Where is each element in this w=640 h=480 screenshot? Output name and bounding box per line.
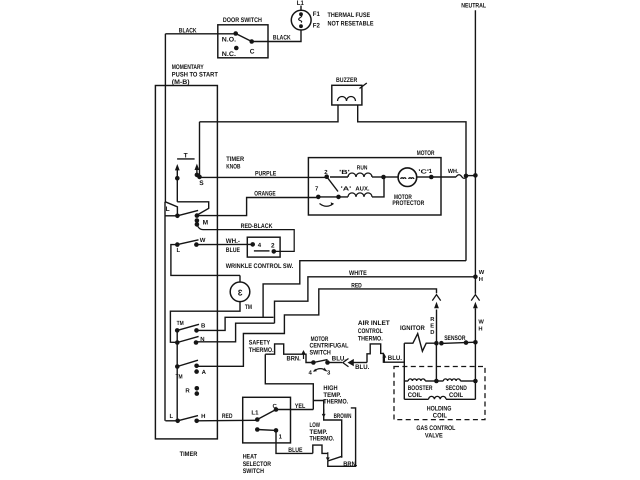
svg-text:MOMENTARY: MOMENTARY (172, 64, 204, 71)
svg-text:AIR INLET: AIR INLET (358, 320, 390, 327)
sensor with dots (441, 335, 477, 345)
low temp thermo contact blade BRN. (326, 408, 358, 468)
svg-text:BRN.: BRN. (343, 461, 357, 468)
svg-text:SWITCH: SWITCH (243, 468, 264, 475)
svg-text:N.O.: N.O. (222, 37, 236, 44)
svg-text:L1: L1 (297, 0, 304, 7)
svg-text:R: R (185, 388, 190, 395)
label: THERMAL FUSE NOT RESETABLE (328, 12, 375, 28)
timer box (155, 86, 217, 458)
svg-text:3: 3 (238, 287, 243, 297)
plug on red wire to ignitor (430, 295, 440, 344)
svg-text:SENSOR: SENSOR (444, 335, 465, 342)
svg-text:RED-BLACK: RED-BLACK (241, 223, 273, 230)
timer T-bar symbol (177, 152, 195, 159)
wire: RED from timer H to heat selector L1 (197, 413, 258, 421)
wire: BLACK from door switch N.O. to momentary push line (165, 28, 235, 35)
svg-text:WH.: WH. (448, 168, 459, 175)
wire: TM top lead (239, 275, 241, 282)
svg-text:COIL: COIL (433, 412, 447, 419)
wire: PURPLE from S to motor pin 2 (201, 170, 327, 177)
svg-text:W: W (200, 237, 206, 244)
svg-text:COIL: COIL (449, 392, 463, 399)
timer rail: main L rail (164, 202, 166, 421)
timer cam L (upper) (165, 202, 177, 216)
label: MOTOR CENTRIFUGAL SWITCH (310, 336, 349, 357)
ignitor heating element zigzag (404, 334, 436, 352)
booster coil (404, 379, 436, 399)
gas control valve dashed box (394, 367, 485, 440)
buzzer BZ (332, 77, 367, 105)
wire: buzzer stair down to bus (263, 261, 466, 318)
motor centrifugal switch contacts 4-3 (309, 360, 332, 377)
svg-text:WH.-: WH.- (226, 238, 240, 245)
label: SAFETY THERMO. (249, 339, 274, 354)
plug tick BLU (383, 354, 403, 363)
wire: valve left vertical (403, 343, 405, 399)
wire: WH.-BLUE from W to wrinkle control 4 (196, 238, 252, 254)
svg-text:W: W (478, 319, 484, 325)
label: IGNITOR (400, 325, 425, 332)
motor pin C out (417, 168, 434, 179)
svg-text:DOOR SWITCH: DOOR SWITCH (223, 17, 262, 24)
svg-text:BRN.: BRN. (287, 355, 301, 362)
svg-text:VALVE: VALVE (425, 432, 443, 439)
svg-text:IGNITOR: IGNITOR (400, 325, 425, 332)
svg-text:BROWN: BROWN (334, 413, 352, 420)
wire: thermal fuse bottom lead, BLACK, to door switch C (252, 30, 301, 42)
timer contact S with arrow (195, 164, 205, 187)
svg-text:PURPLE: PURPLE (255, 170, 277, 177)
svg-text:L1: L1 (251, 409, 259, 416)
wire: WHITE from neutral junction stair down (275, 270, 476, 323)
timer contact W row with blade (lower L) (175, 237, 206, 254)
svg-text:KNOB: KNOB (226, 164, 240, 171)
plug tick BROWN (322, 409, 352, 421)
svg-text:BLACK: BLACK (179, 28, 197, 35)
label: TIMER KNOB (226, 156, 244, 171)
junction dots motor out (464, 173, 478, 178)
svg-text:H: H (478, 327, 482, 333)
plug arrows BLU. on centrifugal wire (328, 356, 370, 371)
svg-text:C: C (250, 48, 255, 55)
svg-text:BLUE: BLUE (288, 447, 303, 454)
svg-text:W: W (479, 270, 485, 276)
svg-text:ORANGE: ORANGE (254, 190, 276, 197)
second coil (436, 379, 475, 399)
svg-text:COIL: COIL (408, 392, 422, 399)
svg-text:WRINKLE CONTROL SW.: WRINKLE CONTROL SW. (226, 263, 294, 270)
label W-H upper and plug on neutral (471, 270, 485, 343)
svg-text:A: A (202, 369, 207, 376)
svg-text:H: H (479, 277, 483, 283)
svg-text:L: L (177, 247, 181, 254)
svg-text:L: L (170, 413, 174, 420)
timer contact TM-A with blade (175, 360, 207, 381)
svg-text:TM: TM (177, 320, 184, 327)
junction dots coils (434, 379, 478, 384)
motor box (308, 150, 441, 215)
wrinkle control switch box (226, 237, 294, 270)
svg-text:SAFETY: SAFETY (249, 339, 271, 346)
heat selector switch box (243, 397, 291, 475)
svg-text:F2: F2 (313, 22, 320, 29)
svg-text:THERMAL FUSE: THERMAL FUSE (328, 12, 371, 19)
timer contact R (unused) (185, 386, 199, 396)
svg-text:BUZZER: BUZZER (336, 77, 357, 84)
wire: red vertical into coils junction (435, 343, 437, 381)
svg-text:S: S (199, 180, 204, 187)
svg-text:PUSH TO START: PUSH TO START (172, 72, 218, 79)
motor pin 7 (315, 186, 321, 200)
timer motor TM (230, 282, 252, 311)
timer contact arrow left with dot (175, 164, 180, 202)
svg-text:H: H (201, 413, 205, 420)
wire: buzzer left lead to timer S line (200, 105, 339, 122)
svg-text:THERMO.: THERMO. (310, 435, 335, 442)
svg-text:'A': 'A' (341, 186, 352, 193)
wire: B contact stair to white/neutral bus (197, 317, 274, 330)
svg-text:CONTROL: CONTROL (358, 328, 383, 335)
svg-text:SWITCH: SWITCH (310, 349, 331, 356)
svg-text:NOT RESETABLE: NOT RESETABLE (328, 20, 375, 27)
safety thermostat bump (265, 344, 313, 363)
holding coil (404, 396, 475, 419)
junction dot white-neutral (473, 275, 478, 280)
air inlet thermostat double bump (367, 344, 404, 363)
timer contact N with blade (175, 336, 205, 345)
svg-text:T: T (184, 152, 188, 159)
label: AIR INLET CONTROL THERMO. (358, 320, 390, 342)
svg-text:TIMER: TIMER (180, 451, 198, 458)
timer knob bracket from arrow contact (177, 202, 208, 215)
svg-text:L: L (166, 206, 170, 213)
wire: YEL from C to high temp thermo (276, 403, 313, 410)
junction dots ignitor (434, 341, 444, 346)
svg-text:AUX.: AUX. (355, 186, 370, 193)
svg-text:E: E (430, 323, 434, 329)
svg-text:HOLDING: HOLDING (427, 405, 452, 412)
svg-text:TIMER: TIMER (226, 156, 244, 163)
wire: W pivot hook down to timer motor line (171, 245, 240, 276)
low temp thermo bump (310, 422, 335, 453)
motor run winding 'B' (330, 164, 384, 177)
wire: BLUE from heat selector 1 to low temp thermo (276, 430, 313, 454)
svg-text:BLACK: BLACK (273, 35, 291, 42)
svg-text:N.C.: N.C. (222, 51, 236, 58)
door switch contacts N.O., N.C., C (222, 31, 255, 58)
svg-text:M: M (203, 220, 209, 227)
svg-text:RUN: RUN (357, 164, 368, 171)
timer pivot rail B-N-A-L (176, 330, 178, 421)
svg-text:TM: TM (176, 374, 183, 381)
svg-text:F1: F1 (313, 11, 320, 18)
svg-text:B: B (201, 323, 206, 330)
plug tick BRN. (287, 350, 306, 362)
wire: neutral vertical into coils (474, 342, 476, 399)
wire: safety thermo drop to high temp thermo (265, 354, 313, 409)
svg-text:GAS CONTROL: GAS CONTROL (416, 425, 455, 432)
svg-text:THERMO.: THERMO. (249, 347, 274, 354)
wrinkle control contacts 4 and 2 (250, 242, 276, 254)
svg-text:BLU.: BLU. (332, 356, 346, 363)
svg-text:RED: RED (222, 413, 233, 420)
motor pin 2 with start blade (320, 169, 339, 206)
wire: N contact stair to bus (196, 323, 275, 342)
motor aux winding 'A' (318, 179, 384, 200)
svg-text:YEL: YEL (295, 403, 306, 410)
motor protector (384, 168, 425, 207)
svg-text:THERMO.: THERMO. (358, 335, 383, 342)
svg-text:PROTECTOR: PROTECTOR (392, 200, 424, 207)
svg-text:THERMO.: THERMO. (323, 398, 348, 405)
wire: A contact to red stair (197, 282, 437, 366)
svg-text:TM: TM (245, 304, 252, 311)
timer contact TM-B with blade (175, 320, 206, 333)
svg-text:SELECTOR: SELECTOR (243, 461, 272, 468)
svg-text:BLUE: BLUE (226, 247, 241, 254)
wire: buzzer right lead down right side to stair (358, 105, 466, 261)
svg-text:D: D (430, 330, 434, 336)
wire: L1 lead into thermal fuse (297, 0, 304, 10)
junction dot run-aux (381, 175, 386, 180)
wire: WH. motor C to neutral (431, 168, 475, 178)
svg-text:HEAT: HEAT (243, 454, 257, 461)
svg-text:RED: RED (351, 282, 362, 289)
wire: momentary push-to-start vertical (164, 34, 166, 202)
svg-text:BLU.: BLU. (388, 355, 402, 362)
wire: RED-BLACK from M to wrinkle control 2 (198, 223, 295, 252)
svg-text:WHITE: WHITE (349, 270, 367, 277)
wire: NEUTRAL vertical line (474, 10, 476, 294)
wire: buzzer line down to S (199, 122, 201, 176)
svg-text:BLU.: BLU. (355, 364, 369, 371)
timer contact L-H with blade (165, 413, 205, 423)
high temp thermo bump (313, 385, 348, 458)
wire: ORANGE from M to motor pin 7 (199, 190, 319, 215)
wire: TM bottom lead to N pivot (170, 302, 240, 343)
heat selector contacts L1 C 1 (251, 403, 282, 441)
door switch box (218, 17, 268, 58)
label: MOMENTARY PUSH TO START (M-B) (172, 64, 218, 86)
label W-H lower (478, 319, 484, 332)
svg-text:2: 2 (271, 243, 275, 250)
svg-text:MOTOR: MOTOR (417, 150, 435, 157)
svg-text:NEUTRAL: NEUTRAL (461, 3, 486, 10)
label: NEUTRAL (461, 3, 486, 10)
thermal fuse F1-F2 (not resetable) (291, 10, 320, 30)
timer contact M with blade (175, 210, 209, 226)
